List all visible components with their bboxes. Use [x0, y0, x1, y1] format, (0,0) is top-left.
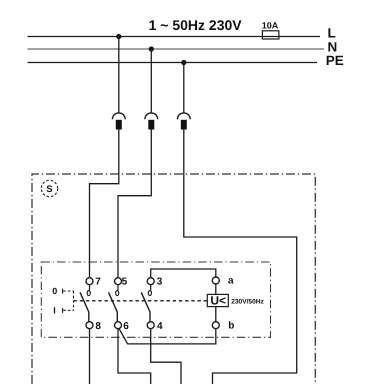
svg-text:S: S	[46, 184, 52, 195]
svg-text:I: I	[53, 305, 56, 315]
svg-text:0: 0	[52, 286, 57, 296]
svg-text:230V/50Hz: 230V/50Hz	[231, 299, 264, 306]
svg-text:7: 7	[95, 277, 101, 288]
svg-text:b: b	[228, 321, 234, 332]
svg-text:1 ~ 50Hz 230V: 1 ~ 50Hz 230V	[149, 17, 243, 33]
svg-text:3: 3	[157, 277, 163, 288]
svg-text:6: 6	[123, 321, 129, 332]
svg-text:5: 5	[122, 277, 128, 288]
svg-text:8: 8	[95, 321, 101, 332]
svg-text:L: L	[328, 26, 336, 41]
svg-text:10A: 10A	[262, 21, 279, 31]
svg-text:a: a	[228, 276, 234, 287]
svg-text:PE: PE	[326, 53, 344, 68]
svg-text:4: 4	[157, 321, 163, 332]
svg-text:U<: U<	[210, 294, 226, 308]
